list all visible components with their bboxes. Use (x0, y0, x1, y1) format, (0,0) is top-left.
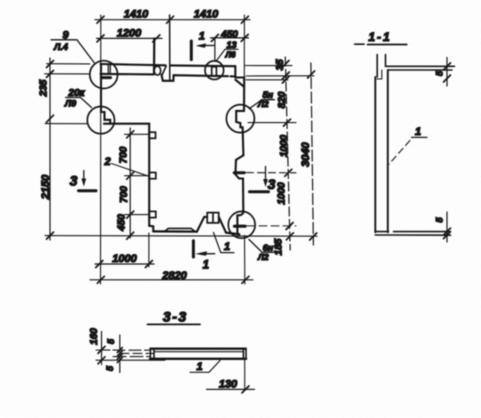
svg-text:235: 235 (39, 79, 50, 97)
trapezoid key slot (207, 213, 219, 223)
ext 20k corner to left dim (45, 123, 88, 125)
svg-text:Л9: Л9 (64, 98, 76, 108)
section 1-1 dim 5 top (446, 58, 448, 87)
ext left vertical (panel left edge extended) (100, 15, 102, 284)
section marker 1 bottom (192, 241, 195, 257)
svg-text:1000: 1000 (276, 182, 287, 205)
section marker 3 right (265, 167, 267, 183)
detail circle 13/L6 top (205, 61, 224, 80)
ticks 1200 (97, 35, 160, 42)
ticks 450 (211, 34, 248, 41)
panel inner left edge vertical (149, 124, 153, 232)
svg-text:3-3: 3-3 (163, 308, 188, 324)
ticks 2820 bottom (97, 276, 249, 283)
section marker 3 left (83, 171, 85, 183)
panel bottom edge (153, 231, 239, 234)
section 1-1 web right line (387, 70, 389, 232)
section 3-3 dim 160 (101, 332, 103, 365)
bottom edge recess (165, 228, 196, 231)
section marker 1 top (190, 41, 193, 60)
ticks inner chain (127, 131, 134, 239)
ext cut line 3-3 dashed (247, 172, 297, 174)
svg-text:3: 3 (268, 176, 276, 192)
detail 9 inner joint lines (108, 64, 110, 74)
ext right ledge to chain1 (246, 79, 288, 81)
detail circle 6n/L2 bottom-right (228, 211, 255, 238)
ext right outer-top to chain1 (244, 65, 292, 67)
svg-text:35: 35 (275, 59, 286, 71)
dim line 1000 bottom (95, 263, 154, 265)
thick bar in 6n detail (235, 225, 246, 228)
ext inner 700 tick rows (125, 134, 150, 214)
detail circle 20k/L9 left (87, 107, 114, 134)
ticks chain1 (282, 61, 293, 240)
detail 13 keyway (212, 67, 217, 75)
section 3-3 left sheet lines (96, 349, 150, 351)
ticks left chain (47, 61, 54, 240)
section 3-3 rib left end (150, 349, 154, 359)
ext right vertical (right edge extended) (243, 15, 246, 284)
svg-text:3: 3 (70, 173, 78, 189)
dim line 1200 (97, 37, 163, 39)
svg-text:1: 1 (224, 241, 230, 253)
svg-text:1: 1 (199, 31, 205, 43)
svg-text:1200: 1200 (117, 27, 142, 39)
section 1-1 web left line (374, 77, 376, 232)
thick bar at 3-3 cut crossing right edge (234, 171, 244, 174)
ext mid vertical 1410 (169, 15, 171, 81)
svg-text:Л.4: Л.4 (53, 42, 68, 52)
detail circle 9/L4 top-left (90, 61, 118, 89)
dim vertical chain2 3040 (311, 63, 314, 245)
svg-text:13: 13 (226, 40, 236, 50)
svg-text:2150: 2150 (40, 174, 52, 200)
section 3-3 rib inner top line (154, 351, 243, 353)
detail 9 thick bar (101, 76, 110, 79)
section 1-1 bottom flange (375, 232, 450, 236)
section 3-3 dim 5 top (119, 335, 121, 373)
top right corner step (235, 66, 244, 86)
ext bottom long line (45, 235, 317, 238)
svg-text:450: 450 (117, 214, 128, 232)
svg-text:1: 1 (196, 361, 202, 373)
svg-text:700: 700 (119, 146, 130, 163)
embedded square 3 on inner edge (149, 211, 156, 217)
svg-text:185: 185 (274, 238, 285, 255)
ext top inner edge to left dim (45, 73, 90, 75)
tick (97, 16, 248, 23)
panel top outer edge (101, 64, 236, 66)
ext 6n ledge to chain1 dashed (247, 225, 296, 227)
svg-text:1: 1 (415, 126, 421, 138)
svg-text:130: 130 (219, 379, 238, 391)
section 1-1 lip inner step (377, 70, 382, 79)
panel left edge (101, 64, 110, 124)
section 3-3 rib bottom line (150, 358, 246, 360)
section 3-3 dim 130 (207, 388, 255, 390)
svg-text:2: 2 (103, 156, 110, 168)
svg-text:450: 450 (220, 29, 238, 40)
ext right inner-top to chain2 (246, 75, 314, 77)
ext inner edge down to 1000 dim (148, 233, 150, 267)
dim vertical left 235/2150 (49, 58, 51, 240)
section 3-3 rib right end (243, 349, 246, 359)
svg-text:1000: 1000 (279, 134, 290, 157)
svg-text:1410: 1410 (124, 9, 149, 21)
svg-text:Л2: Л2 (257, 252, 269, 262)
svg-text:2820: 2820 (161, 270, 187, 282)
panel top inner edge (101, 74, 236, 81)
dim line 450 top (211, 37, 249, 39)
section 1-1 top flange (386, 66, 455, 70)
svg-text:3040: 3040 (300, 141, 312, 166)
svg-text:1000: 1000 (112, 253, 137, 265)
detail circle 5n/L2 right (226, 105, 254, 133)
right edge corner hook into 6n circle (237, 211, 243, 233)
svg-text:1410: 1410 (194, 9, 219, 21)
ext 1200 vertical (153, 39, 156, 74)
top edge slash at notch (162, 66, 166, 75)
ext right keyway to chain1 (248, 122, 296, 124)
section 3-3 right drop line (244, 359, 246, 390)
dim vertical inner 700/700/450 (129, 128, 131, 238)
top edge oval dowel (154, 66, 161, 75)
embedded square 1 on inner edge (149, 132, 155, 138)
svg-text:1: 1 (203, 259, 209, 271)
bottom trapezoid key (197, 217, 226, 233)
svg-text:Л6: Л6 (225, 51, 236, 60)
svg-text:1-1: 1-1 (368, 30, 391, 44)
svg-text:820: 820 (277, 91, 288, 108)
panel re-entrant edge horizontal (104, 123, 149, 125)
ticks 1000 bottom (96, 261, 153, 268)
section 3-3 rib top line (150, 348, 245, 350)
section 1-1 dim 5 bottom (446, 212, 448, 242)
ext top outer edge to left dim (47, 63, 90, 65)
embedded square 2 on inner edge (149, 173, 156, 179)
dim vertical chain1 right (285, 57, 290, 250)
svg-text:Л2: Л2 (257, 99, 269, 109)
dim line 2820 bottom (90, 279, 253, 281)
ext 450 vertical (214, 38, 216, 61)
dim line 2820 top (1410+1410) (95, 19, 250, 21)
ticks chain2 (308, 71, 317, 240)
section 1-1 top lip (377, 55, 385, 78)
panel right edge (235, 78, 244, 212)
svg-text:160: 160 (89, 328, 100, 345)
svg-text:700: 700 (119, 186, 130, 203)
